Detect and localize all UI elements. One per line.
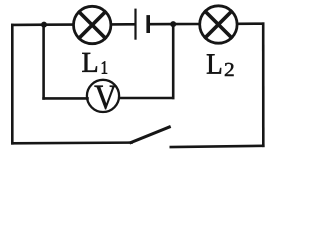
label L2 letter L xyxy=(207,54,221,73)
wire: voltmeter branch right horizontal xyxy=(120,97,174,100)
label L1 subscript 1 xyxy=(102,61,107,73)
wire: voltmeter branch left horizontal xyxy=(44,97,88,100)
wire: lamp L2 to top-right corner xyxy=(238,22,263,25)
voltmeter V xyxy=(87,80,119,112)
wire: right side of outer loop xyxy=(262,24,265,146)
wire: lamp L1 to battery xyxy=(112,23,135,26)
node B (junction dot) xyxy=(170,21,176,27)
wire: node B to lamp L2 xyxy=(173,23,199,26)
lamp L2 xyxy=(200,6,237,43)
wire: bottom left corner to switch xyxy=(12,141,131,144)
battery cell: long positive plate xyxy=(134,10,136,39)
battery cell: short thick negative plate xyxy=(146,17,150,31)
wire: node A down to voltmeter branch xyxy=(42,25,45,99)
node A (junction dot) xyxy=(41,22,47,28)
voltmeter letter V xyxy=(95,86,117,109)
label L1 letter L xyxy=(82,53,97,72)
wire: left side of outer loop xyxy=(11,25,14,143)
wire: voltmeter branch right vertical up to node B xyxy=(172,24,175,98)
wire: node A to lamp L1 xyxy=(44,23,73,26)
switch blade (open) xyxy=(131,127,169,143)
wire: bottom right corner to switch contact xyxy=(171,146,263,147)
wire: top-left corner to node A xyxy=(12,23,44,26)
label L2 subscript 2 xyxy=(225,63,234,76)
lamp L1 xyxy=(74,6,111,43)
wire: battery to node B xyxy=(148,23,173,26)
